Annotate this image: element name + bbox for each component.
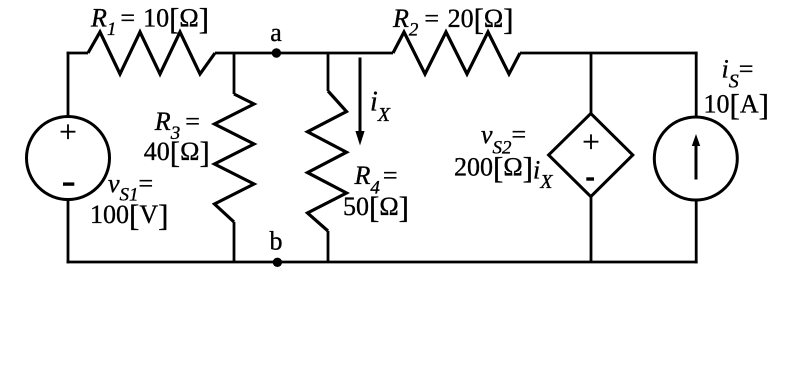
wire VS2 stem bottom: [590, 197, 593, 263]
svg-text:40[Ω]: 40[Ω]: [144, 135, 210, 170]
current arrow iX head: [355, 131, 364, 146]
voltage source VS1 circle: [27, 117, 110, 200]
IS arrow head: [692, 134, 700, 146]
svg-text:a: a: [270, 18, 282, 47]
wire top-left horizontal segment: [67, 52, 88, 55]
IS arrow line: [695, 143, 698, 180]
wire IS stem top: [695, 52, 698, 118]
VS1 minus sign: [63, 182, 74, 185]
svg-text:50[Ω]: 50[Ω]: [343, 190, 409, 225]
wire top right segment: [520, 52, 698, 55]
resistor R3: [215, 94, 255, 222]
svg-text:+: +: [582, 124, 599, 159]
wire IS stem bottom: [695, 200, 698, 264]
svg-text:100[V]: 100[V]: [90, 198, 168, 233]
wire left vertical upper: [67, 52, 70, 117]
VS2 minus sign: [586, 177, 594, 180]
resistor R3 stem bottom: [233, 222, 236, 262]
svg-text:10[A]: 10[A]: [704, 88, 769, 123]
resistor R3 stem top: [233, 53, 236, 94]
wire top middle segment: [215, 52, 393, 55]
resistor R4 stem top: [327, 53, 330, 91]
bottom wire: [67, 261, 698, 264]
current source IS circle: [654, 117, 737, 200]
resistor R4 stem bottom: [327, 231, 330, 262]
node b dot: [273, 258, 282, 267]
resistor R1: [88, 32, 215, 74]
svg-text:+: +: [59, 114, 76, 149]
resistor R2: [393, 32, 520, 74]
node a dot: [272, 48, 281, 57]
wire left vertical lower: [67, 200, 70, 264]
dependent source VS2 diamond: [549, 114, 633, 197]
resistor R4: [308, 91, 347, 231]
current arrow iX line: [359, 58, 362, 134]
wire VS2 stem top: [590, 53, 593, 114]
svg-text:b: b: [270, 226, 283, 255]
